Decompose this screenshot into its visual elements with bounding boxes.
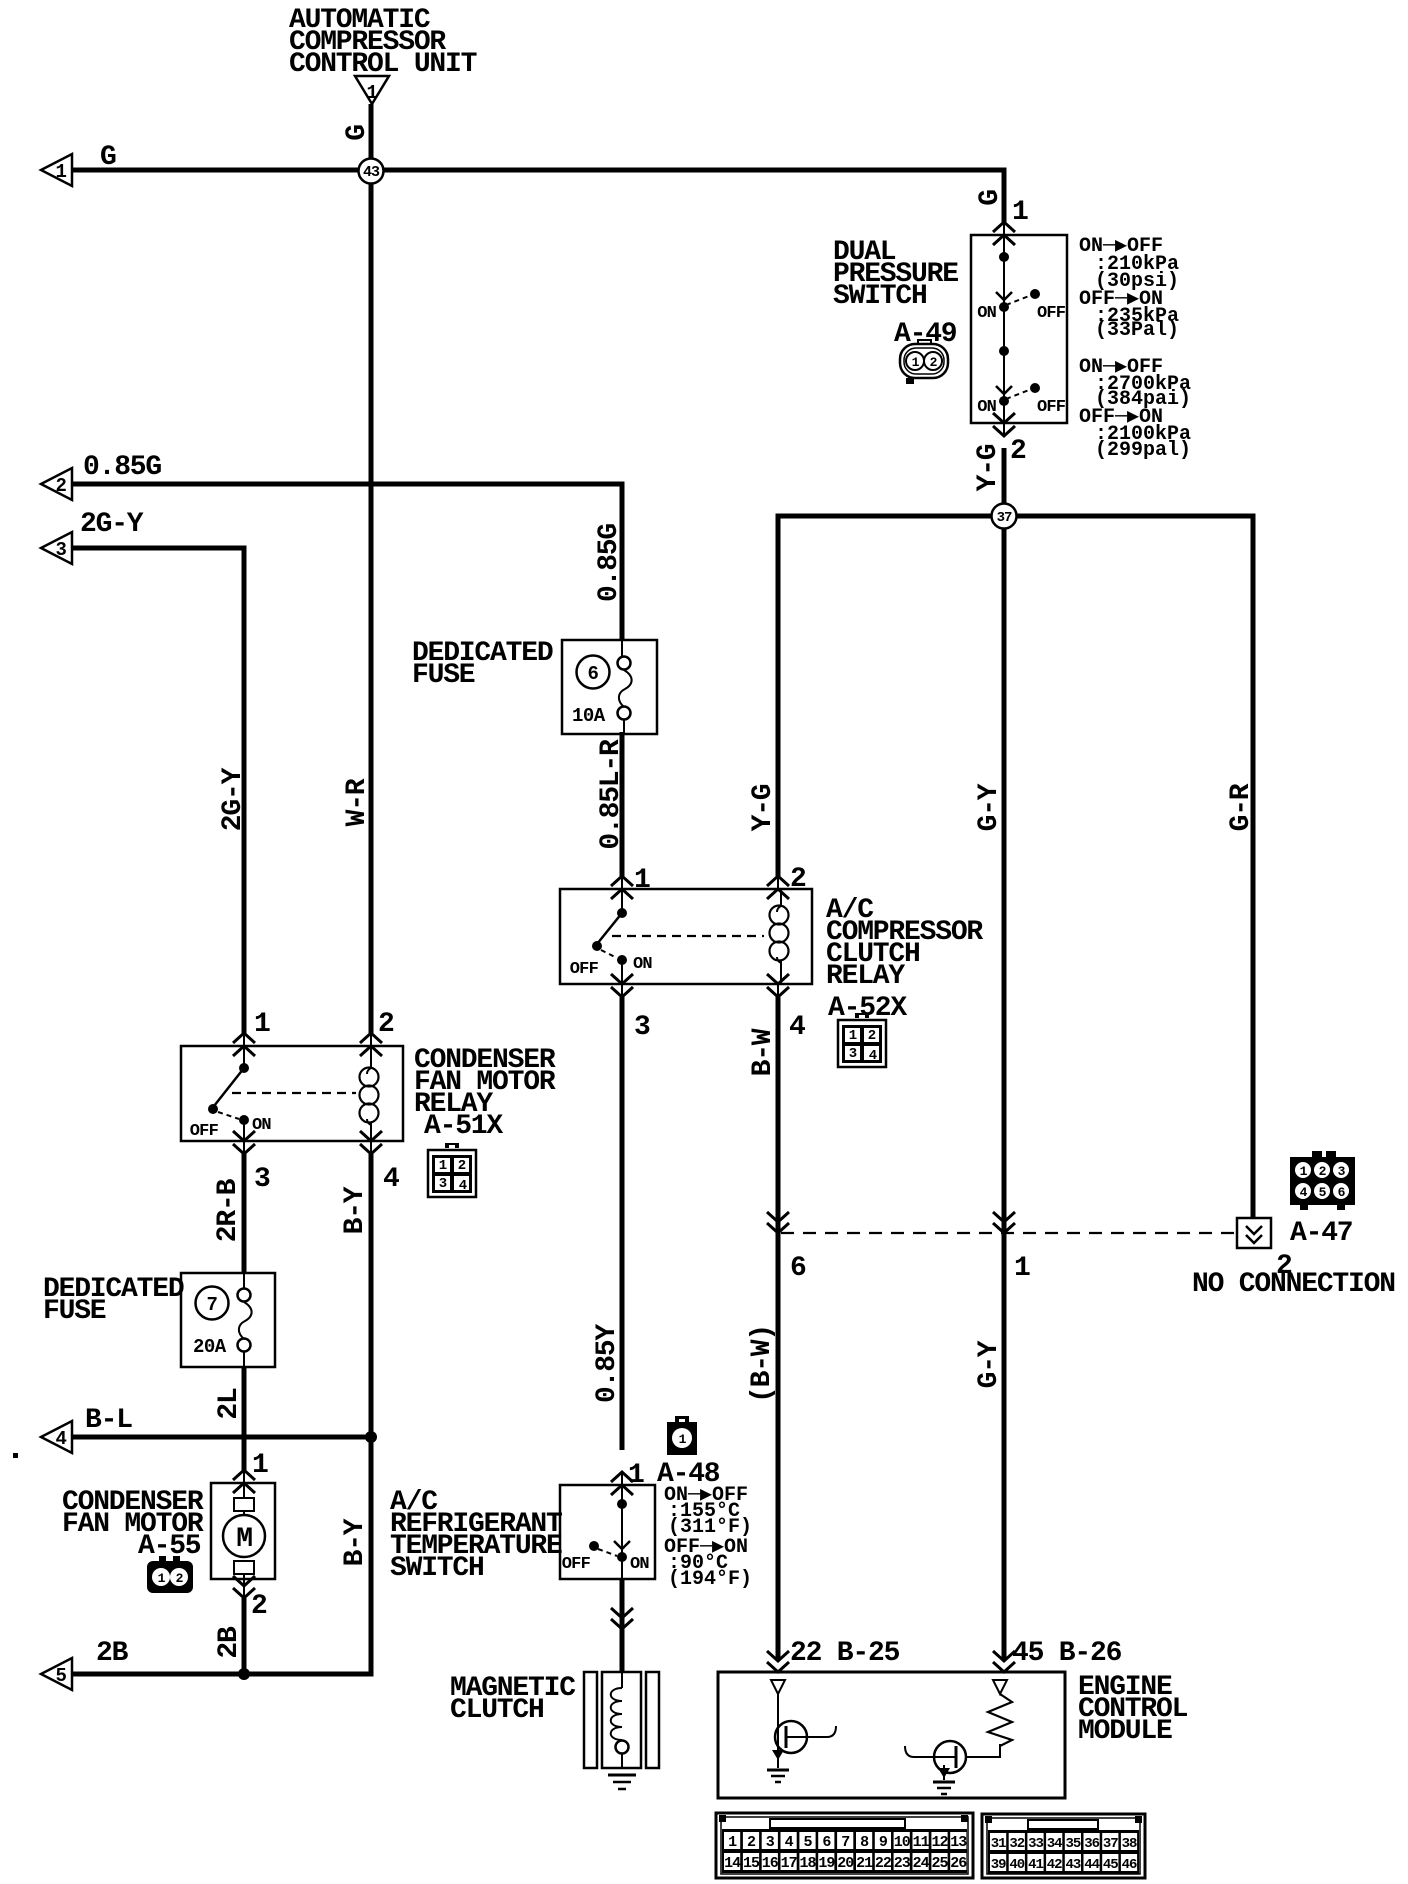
svg-text:ON: ON (977, 304, 996, 323)
svg-text:4: 4 (459, 1178, 467, 1194)
svg-text:A-55: A-55 (138, 1531, 201, 1562)
svg-text:1: 1 (849, 1028, 857, 1044)
svg-text:1: 1 (912, 355, 920, 370)
svg-text:4: 4 (789, 1012, 805, 1043)
svg-text:1: 1 (439, 1158, 447, 1174)
svg-text:6: 6 (790, 1253, 806, 1284)
svg-text:2G-Y: 2G-Y (80, 509, 144, 540)
svg-text:1: 1 (679, 1432, 687, 1447)
svg-text:G-Y: G-Y (974, 1340, 1005, 1388)
svg-text:2: 2 (378, 1009, 394, 1040)
svg-text:W-R: W-R (342, 778, 373, 826)
svg-text:2: 2 (930, 355, 938, 370)
svg-text:1: 1 (728, 1834, 737, 1851)
svg-text:32: 32 (1009, 1836, 1024, 1852)
svg-text:OFF: OFF (570, 960, 599, 979)
svg-text:7: 7 (207, 1294, 218, 1316)
svg-text:2B: 2B (214, 1626, 245, 1659)
svg-text:1: 1 (628, 1460, 644, 1491)
svg-text:0.85G: 0.85G (594, 524, 625, 602)
svg-text:3: 3 (766, 1834, 775, 1851)
svg-text:3: 3 (634, 1012, 650, 1043)
svg-text:G-Y: G-Y (974, 783, 1005, 831)
svg-text:3: 3 (254, 1164, 270, 1195)
svg-text:24: 24 (913, 1855, 930, 1872)
svg-text:A-47: A-47 (1290, 1218, 1352, 1249)
svg-text:42: 42 (1047, 1857, 1062, 1873)
svg-text:(B-W): (B-W) (747, 1325, 778, 1403)
svg-text:0.85L-R: 0.85L-R (596, 739, 627, 850)
svg-text:44: 44 (1084, 1857, 1099, 1873)
svg-text:OFF: OFF (190, 1122, 219, 1141)
svg-text:G: G (100, 142, 116, 173)
svg-text:14: 14 (724, 1855, 741, 1872)
svg-text:34: 34 (1047, 1836, 1062, 1852)
svg-text:35: 35 (1065, 1836, 1080, 1852)
svg-text:1: 1 (367, 82, 378, 104)
svg-text:26: 26 (950, 1855, 967, 1872)
svg-text:38: 38 (1122, 1836, 1137, 1852)
svg-text:2B: 2B (96, 1638, 129, 1669)
svg-text:41: 41 (1028, 1857, 1043, 1873)
svg-text:Y-G: Y-G (973, 444, 1004, 491)
svg-text:10A: 10A (572, 705, 606, 727)
svg-text:43: 43 (363, 164, 380, 181)
svg-text:SWITCH: SWITCH (390, 1553, 484, 1584)
svg-text:G-R: G-R (1226, 783, 1257, 831)
svg-text:3: 3 (439, 1176, 447, 1192)
svg-text:0.85G: 0.85G (83, 452, 161, 483)
svg-text:6: 6 (822, 1834, 831, 1851)
svg-text:OFF: OFF (1037, 304, 1066, 323)
svg-text:2L: 2L (214, 1388, 245, 1420)
svg-text:1: 1 (252, 1450, 268, 1481)
svg-text:20A: 20A (193, 1336, 227, 1358)
svg-text:M: M (236, 1524, 252, 1555)
svg-text:0.85Y: 0.85Y (592, 1324, 623, 1403)
svg-text:G: G (342, 125, 373, 141)
svg-text:(299pal): (299pal) (1095, 439, 1191, 462)
svg-text:6: 6 (1338, 1185, 1346, 1200)
svg-text:B-Y: B-Y (340, 1186, 371, 1234)
svg-text:(194°F): (194°F) (668, 1568, 752, 1591)
svg-text:11: 11 (913, 1834, 930, 1851)
svg-text:1: 1 (56, 161, 67, 183)
svg-text:2: 2 (458, 1158, 466, 1174)
svg-text:2R-B: 2R-B (213, 1178, 244, 1242)
svg-text:46: 46 (1122, 1857, 1137, 1873)
svg-text:43: 43 (1065, 1857, 1080, 1873)
svg-text:3: 3 (1338, 1164, 1346, 1179)
svg-text:FUSE: FUSE (412, 660, 475, 691)
svg-text:RELAY: RELAY (826, 961, 905, 992)
svg-text:1: 1 (254, 1009, 270, 1040)
svg-text:2: 2 (251, 1591, 267, 1622)
svg-text:OFF: OFF (1037, 398, 1066, 417)
svg-text:19: 19 (818, 1855, 835, 1872)
svg-text:22 B-25: 22 B-25 (790, 1638, 900, 1669)
svg-text:8: 8 (860, 1834, 869, 1851)
svg-text:12: 12 (931, 1834, 948, 1851)
svg-text:ON: ON (633, 955, 652, 974)
svg-text:18: 18 (799, 1855, 816, 1872)
svg-text:45: 45 (1103, 1857, 1118, 1873)
svg-text:3: 3 (849, 1046, 857, 1062)
svg-text:1: 1 (158, 1571, 166, 1586)
svg-text:37: 37 (1103, 1836, 1118, 1852)
svg-text:37: 37 (997, 510, 1012, 526)
svg-text:33: 33 (1028, 1836, 1043, 1852)
svg-text:40: 40 (1009, 1857, 1024, 1873)
svg-text:23: 23 (894, 1855, 911, 1872)
svg-text:13: 13 (950, 1834, 967, 1851)
svg-text:1: 1 (1014, 1253, 1030, 1284)
svg-text:MODULE: MODULE (1078, 1716, 1172, 1747)
svg-text:2: 2 (176, 1571, 184, 1586)
svg-text:6: 6 (588, 663, 599, 685)
svg-text:22: 22 (875, 1855, 892, 1872)
svg-text:45 B-26: 45 B-26 (1012, 1638, 1122, 1669)
svg-text:4: 4 (383, 1164, 399, 1195)
svg-text:25: 25 (931, 1855, 948, 1872)
svg-text:1: 1 (1012, 197, 1028, 228)
svg-text:2: 2 (1319, 1164, 1327, 1179)
svg-text:CONTROL UNIT: CONTROL UNIT (289, 49, 477, 80)
svg-text:A-51X: A-51X (424, 1111, 503, 1142)
svg-text:SWITCH: SWITCH (833, 281, 927, 312)
svg-text:4: 4 (785, 1834, 794, 1851)
svg-text:G: G (975, 190, 1006, 206)
svg-text:21: 21 (856, 1855, 873, 1872)
svg-text:2: 2 (747, 1834, 756, 1851)
svg-text:NO CONNECTION: NO CONNECTION (1192, 1269, 1395, 1300)
svg-text:4: 4 (869, 1048, 877, 1064)
svg-text:2: 2 (790, 864, 806, 895)
svg-text:B-Y: B-Y (340, 1518, 371, 1566)
svg-text:16: 16 (762, 1855, 779, 1872)
svg-text:(33Pal): (33Pal) (1095, 319, 1179, 342)
svg-text:5: 5 (803, 1834, 812, 1851)
svg-text:31: 31 (991, 1836, 1006, 1852)
svg-text:36: 36 (1084, 1836, 1099, 1852)
svg-text:2: 2 (1010, 436, 1026, 467)
svg-text:4: 4 (1300, 1185, 1308, 1200)
svg-text:5: 5 (1319, 1185, 1327, 1200)
svg-text:Y-G: Y-G (748, 784, 779, 831)
svg-text:B-W: B-W (748, 1028, 779, 1076)
svg-text:ON: ON (630, 1555, 649, 1574)
svg-text:1: 1 (634, 865, 650, 896)
svg-text:15: 15 (743, 1855, 760, 1872)
svg-text:2: 2 (56, 475, 67, 497)
svg-text:39: 39 (991, 1857, 1006, 1873)
svg-text:7: 7 (841, 1834, 849, 1851)
svg-text:OFF: OFF (562, 1555, 591, 1574)
svg-text:2: 2 (868, 1028, 876, 1044)
svg-text:1: 1 (1300, 1164, 1308, 1179)
svg-text:5: 5 (56, 1665, 67, 1687)
svg-text:FUSE: FUSE (43, 1296, 106, 1327)
svg-text:4: 4 (56, 1428, 67, 1450)
svg-text:CLUTCH: CLUTCH (450, 1695, 544, 1726)
svg-text:10: 10 (894, 1834, 911, 1851)
svg-text:B-L: B-L (85, 1405, 132, 1436)
svg-text:9: 9 (879, 1834, 888, 1851)
svg-text:17: 17 (781, 1855, 797, 1872)
svg-text:3: 3 (56, 539, 67, 561)
svg-text:2G-Y: 2G-Y (218, 767, 249, 831)
svg-text:20: 20 (837, 1855, 854, 1872)
